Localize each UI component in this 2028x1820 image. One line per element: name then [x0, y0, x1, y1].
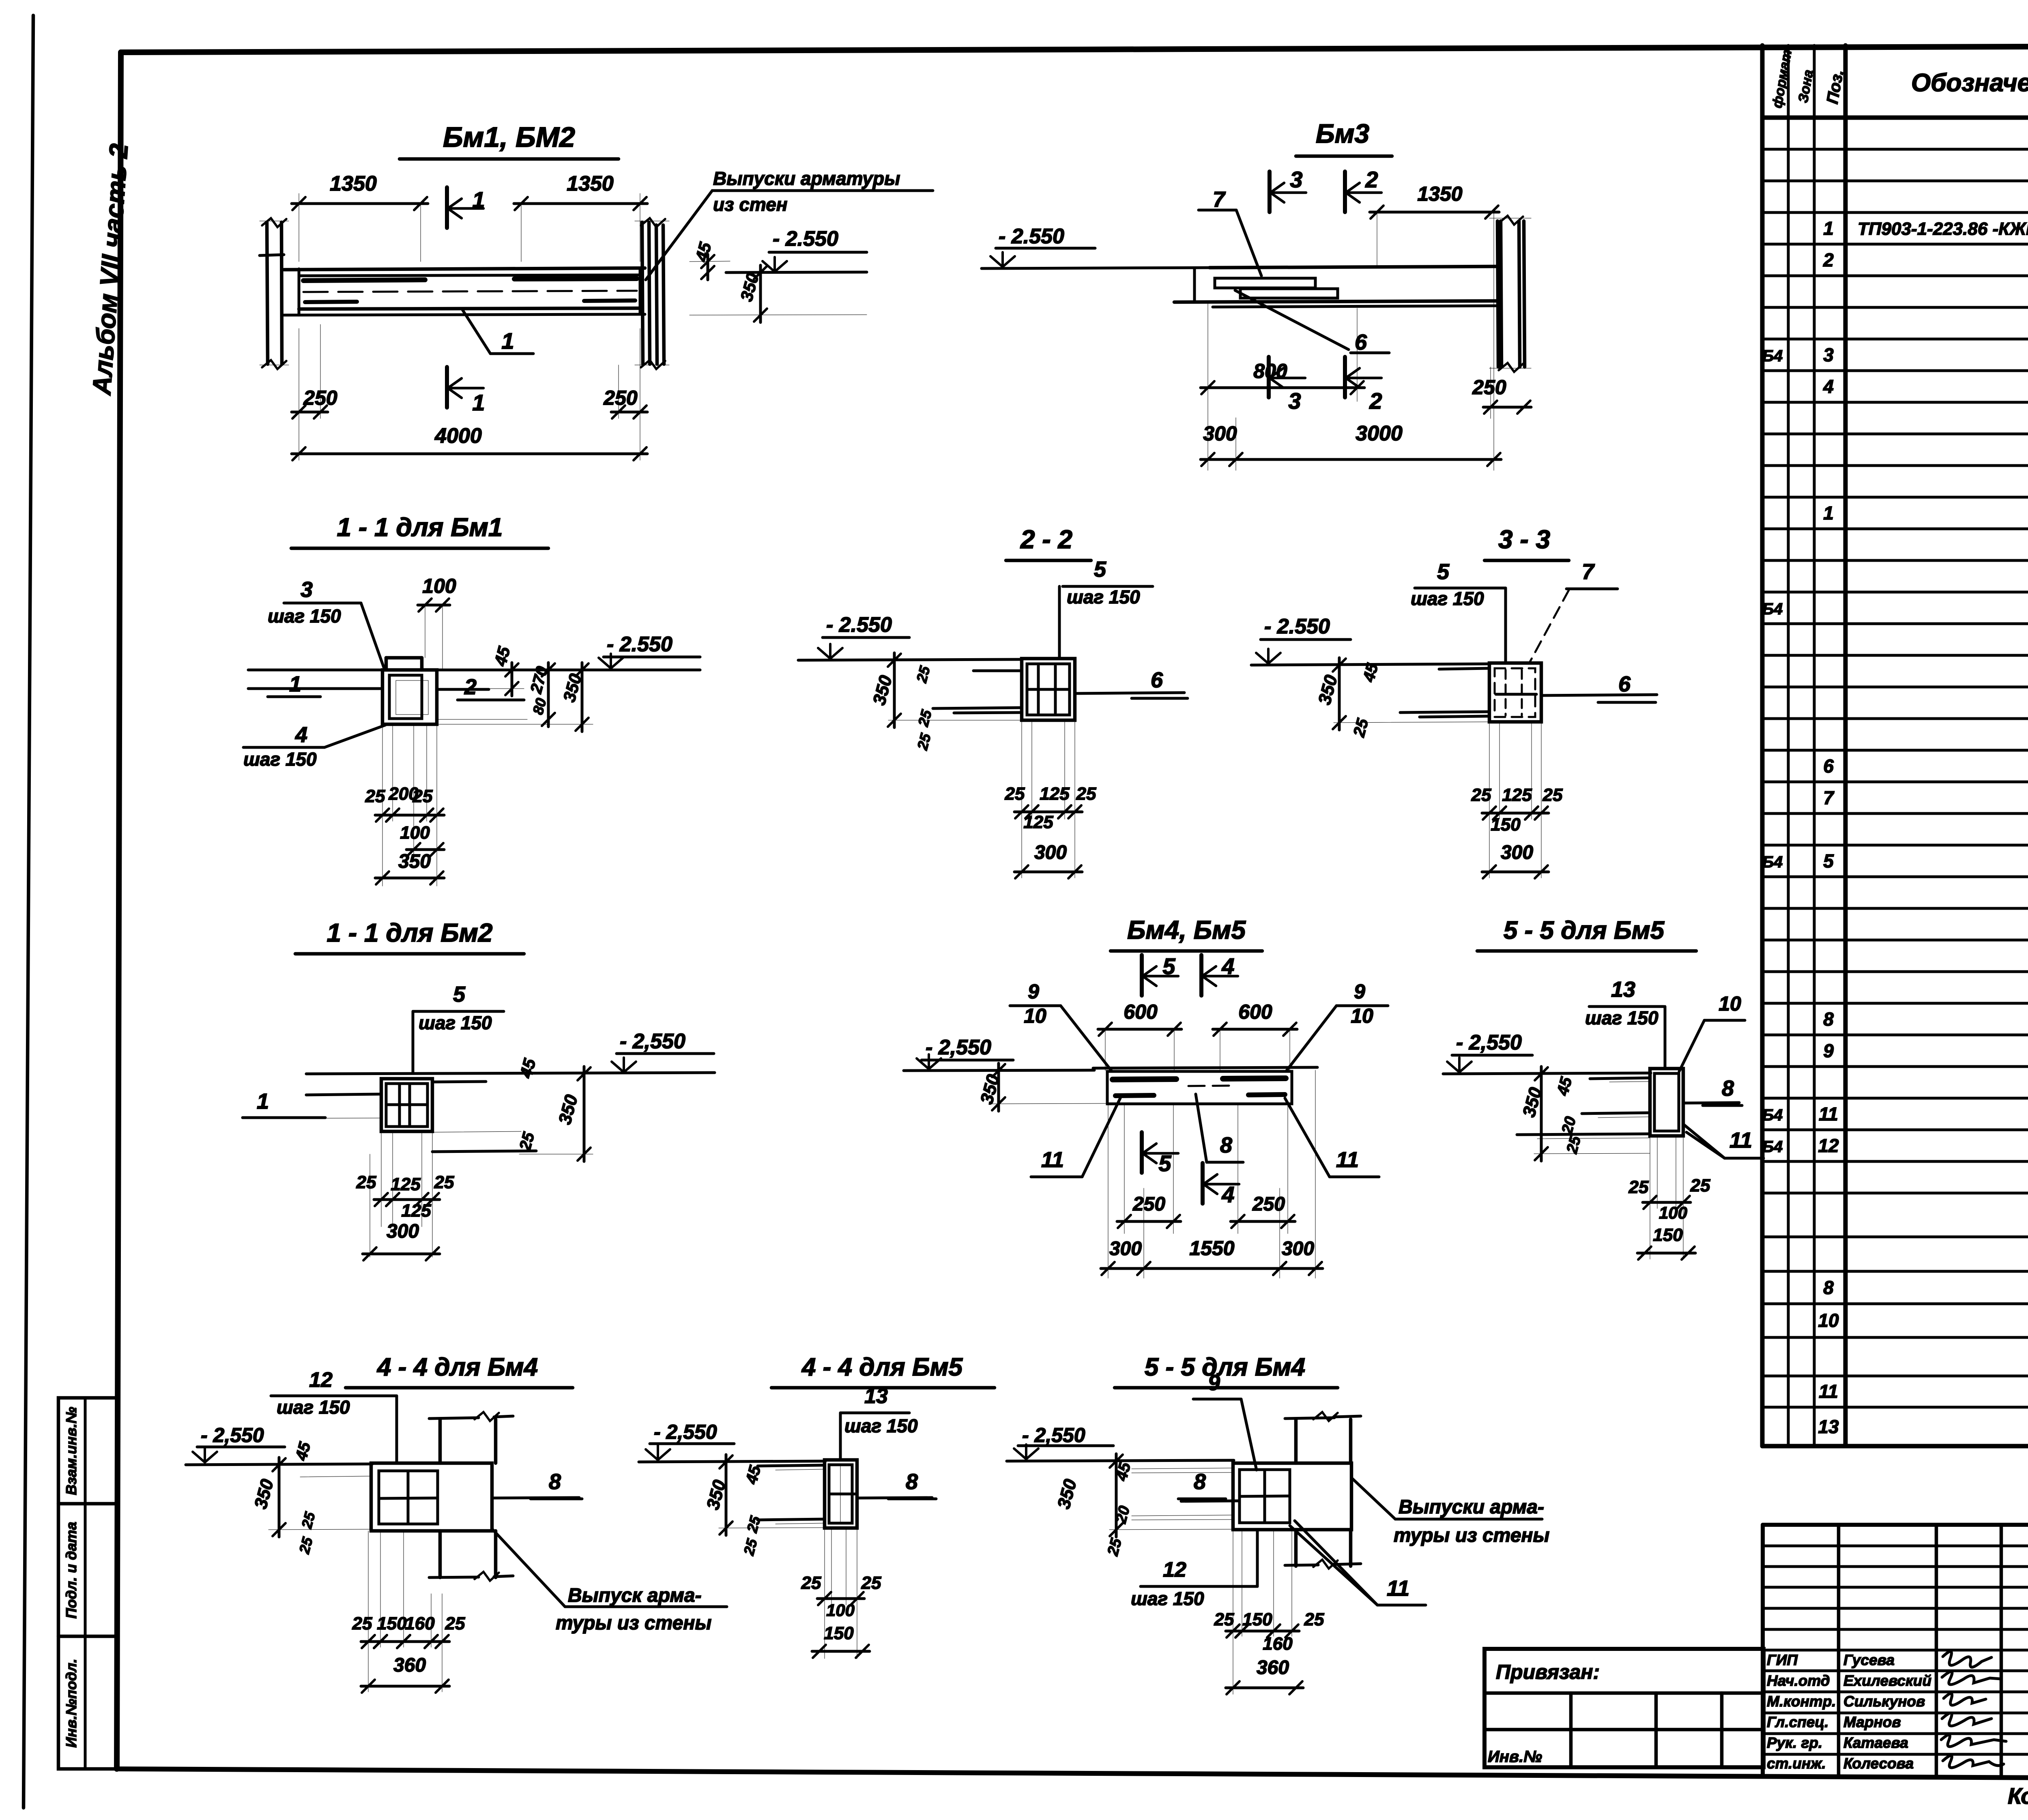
svg-text:4 - 4 для Бм4: 4 - 4 для Бм4 — [376, 1353, 538, 1381]
svg-text:- 2.550: - 2.550 — [999, 225, 1064, 248]
svg-text:25: 25 — [1350, 717, 1372, 739]
svg-text:Копир.: Копир. — [2008, 1783, 2028, 1809]
svg-text:25: 25 — [801, 1573, 821, 1593]
svg-text:5: 5 — [1823, 850, 1834, 871]
svg-text:25: 25 — [1304, 1610, 1324, 1629]
svg-text:125: 125 — [1023, 812, 1053, 832]
svg-text:7: 7 — [1823, 787, 1835, 808]
svg-text:1550: 1550 — [1189, 1237, 1234, 1260]
svg-text:150: 150 — [1491, 815, 1521, 835]
beam elevation БМ4, БМ5 — [904, 915, 1388, 1278]
svg-text:11: 11 — [1819, 1381, 1838, 1402]
svg-text:25: 25 — [296, 1535, 316, 1556]
svg-text:25: 25 — [412, 786, 433, 806]
svg-text:45: 45 — [692, 240, 715, 264]
svg-text:- 2.550: - 2.550 — [826, 613, 892, 637]
svg-text:13: 13 — [864, 1384, 888, 1408]
svg-text:Взам.инв.№: Взам.инв.№ — [63, 1407, 79, 1495]
svg-text:1: 1 — [289, 672, 301, 696]
svg-text:Выпуск арма-: Выпуск арма- — [568, 1585, 702, 1606]
svg-text:80: 80 — [529, 696, 550, 716]
svg-text:8: 8 — [906, 1470, 918, 1494]
svg-text:25: 25 — [1076, 784, 1096, 804]
svg-text:Выпуски арматуры: Выпуски арматуры — [713, 168, 900, 189]
svg-text:350: 350 — [869, 673, 896, 707]
beam elevation БМ1, БМ2 — [260, 121, 933, 460]
svg-text:Бм4, Бм5: Бм4, Бм5 — [1127, 915, 1246, 944]
svg-text:1: 1 — [472, 187, 485, 212]
svg-text:9: 9 — [1823, 1040, 1834, 1061]
svg-text:10: 10 — [1818, 1310, 1839, 1331]
section 5-5 для БМ4 — [1007, 1353, 1549, 1694]
svg-text:Колесова: Колесова — [1843, 1755, 1914, 1772]
svg-text:2: 2 — [1369, 388, 1382, 414]
svg-text:М.контр.: М.контр. — [1767, 1693, 1836, 1710]
svg-text:250: 250 — [303, 386, 337, 409]
svg-text:300: 300 — [387, 1221, 419, 1242]
svg-text:ГИП: ГИП — [1767, 1652, 1798, 1668]
svg-text:150: 150 — [1653, 1225, 1683, 1245]
svg-text:Бм3: Бм3 — [1316, 118, 1369, 148]
svg-text:25: 25 — [915, 708, 935, 728]
svg-text:25: 25 — [365, 786, 385, 806]
svg-text:25: 25 — [1690, 1176, 1710, 1195]
svg-text:45: 45 — [292, 1440, 314, 1463]
svg-text:300: 300 — [1109, 1238, 1142, 1260]
frame left — [117, 52, 121, 1769]
main title block (штамп) — [1763, 1523, 2028, 1527]
svg-text:9: 9 — [1354, 980, 1365, 1003]
svg-text:125: 125 — [391, 1174, 421, 1194]
svg-text:25: 25 — [1628, 1177, 1649, 1197]
svg-text:2: 2 — [464, 675, 477, 699]
svg-text:150: 150 — [1242, 1610, 1272, 1629]
svg-text:туры из стены: туры из стены — [1394, 1525, 1549, 1546]
svg-text:шаг 150: шаг 150 — [419, 1012, 492, 1033]
svg-text:3: 3 — [301, 577, 313, 602]
svg-text:25: 25 — [445, 1614, 465, 1633]
svg-text:5 - 5 для Бм5: 5 - 5 для Бм5 — [1504, 916, 1665, 944]
svg-text:Бм1, БМ2: Бм1, БМ2 — [443, 121, 575, 153]
svg-text:9: 9 — [1208, 1371, 1220, 1395]
svg-text:25: 25 — [1542, 785, 1563, 805]
svg-text:300: 300 — [1034, 842, 1067, 863]
svg-text:Б4: Б4 — [1762, 347, 1783, 365]
svg-text:шаг 150: шаг 150 — [243, 749, 317, 770]
svg-text:11: 11 — [1387, 1576, 1409, 1601]
svg-text:1: 1 — [1823, 502, 1834, 524]
svg-text:3: 3 — [1823, 344, 1834, 365]
svg-text:150: 150 — [377, 1614, 407, 1633]
svg-text:6: 6 — [1823, 755, 1834, 777]
svg-text:шаг 150: шаг 150 — [268, 605, 341, 627]
svg-text:4: 4 — [1823, 376, 1834, 397]
svg-text:12: 12 — [1818, 1135, 1839, 1156]
svg-text:45: 45 — [490, 644, 514, 668]
svg-text:300: 300 — [1501, 842, 1533, 863]
svg-text:8: 8 — [1194, 1470, 1206, 1494]
svg-text:25: 25 — [1563, 1134, 1584, 1156]
svg-text:4: 4 — [1221, 953, 1234, 979]
svg-text:250: 250 — [603, 386, 638, 409]
svg-text:5: 5 — [453, 982, 466, 1007]
svg-text:- 2,550: - 2,550 — [620, 1030, 685, 1053]
svg-text:- 2.550: - 2.550 — [607, 633, 672, 656]
svg-text:Б4: Б4 — [1762, 1138, 1783, 1156]
svg-text:45: 45 — [516, 1056, 539, 1080]
svg-text:300: 300 — [1282, 1238, 1314, 1260]
svg-text:6: 6 — [1151, 668, 1163, 692]
svg-text:Б4: Б4 — [1762, 600, 1783, 618]
svg-text:1350: 1350 — [1417, 182, 1462, 205]
svg-text:Обозначение: Обозначение — [1911, 69, 2028, 97]
svg-text:- 2,550: - 2,550 — [201, 1424, 264, 1447]
svg-text:11: 11 — [1819, 1103, 1838, 1125]
svg-text:125: 125 — [401, 1201, 431, 1221]
svg-text:Нач.отд: Нач.отд — [1767, 1672, 1830, 1689]
svg-text:250: 250 — [1252, 1193, 1285, 1215]
svg-text:Подл. и дата: Подл. и дата — [63, 1522, 79, 1619]
svg-text:Гл.спец.: Гл.спец. — [1767, 1714, 1829, 1730]
svg-text:11: 11 — [1041, 1148, 1064, 1172]
svg-text:25: 25 — [352, 1614, 372, 1633]
svg-text:150: 150 — [824, 1623, 854, 1643]
svg-text:100: 100 — [826, 1601, 855, 1620]
Привязан box — [1484, 1649, 1764, 1767]
svg-text:Марнов: Марнов — [1843, 1714, 1901, 1730]
svg-text:1: 1 — [1823, 218, 1834, 239]
svg-text:45: 45 — [1553, 1075, 1575, 1098]
svg-text:3 - 3: 3 - 3 — [1498, 525, 1550, 554]
svg-text:9: 9 — [1028, 980, 1039, 1003]
svg-text:350: 350 — [555, 1092, 582, 1127]
svg-text:1: 1 — [257, 1089, 269, 1114]
svg-text:100: 100 — [400, 823, 430, 843]
svg-text:туры из стены: туры из стены — [556, 1612, 711, 1634]
svg-text:8: 8 — [1823, 1277, 1834, 1298]
svg-text:Ехилевский: Ехилевский — [1843, 1672, 1931, 1689]
svg-text:25: 25 — [356, 1172, 376, 1192]
svg-text:25: 25 — [516, 1130, 538, 1153]
svg-text:Катаева: Катаева — [1843, 1734, 1908, 1751]
svg-text:11: 11 — [1336, 1148, 1359, 1172]
svg-text:350: 350 — [251, 1477, 277, 1511]
svg-text:160: 160 — [405, 1614, 435, 1633]
svg-text:- 2,550: - 2,550 — [1022, 1424, 1085, 1447]
svg-text:5: 5 — [1158, 1150, 1171, 1176]
svg-text:2: 2 — [1823, 249, 1834, 270]
svg-text:1: 1 — [472, 390, 485, 415]
svg-text:600: 600 — [1238, 1000, 1272, 1023]
svg-text:5: 5 — [1094, 557, 1106, 582]
svg-text:10: 10 — [1351, 1004, 1373, 1027]
svg-text:250: 250 — [1472, 376, 1506, 399]
svg-text:Б4: Б4 — [1762, 853, 1783, 871]
svg-text:2: 2 — [1365, 167, 1378, 192]
svg-text:25: 25 — [434, 1172, 454, 1192]
section 1-1 для БМ2 — [243, 918, 715, 1260]
svg-text:8: 8 — [1823, 1009, 1834, 1030]
svg-text:25: 25 — [1214, 1610, 1234, 1629]
svg-text:5: 5 — [1162, 953, 1175, 979]
section 3-3 — [1251, 525, 1657, 878]
svg-text:13: 13 — [1818, 1416, 1839, 1437]
svg-text:6: 6 — [1618, 672, 1631, 696]
svg-text:360: 360 — [393, 1655, 426, 1676]
svg-text:из стен: из стен — [713, 194, 788, 215]
svg-text:25: 25 — [740, 1537, 760, 1557]
svg-text:2 - 2: 2 - 2 — [1020, 525, 1072, 554]
svg-text:12: 12 — [1163, 1558, 1186, 1582]
svg-text:- 2,550: - 2,550 — [926, 1036, 991, 1059]
beam elevation БМ3 — [982, 118, 1531, 470]
frame bottom — [117, 1769, 2028, 1780]
svg-text:13: 13 — [1611, 977, 1635, 1002]
svg-text:10: 10 — [1719, 992, 1741, 1015]
svg-text:300: 300 — [1203, 422, 1237, 445]
svg-text:3: 3 — [1288, 388, 1301, 414]
svg-text:- 2,550: - 2,550 — [654, 1421, 717, 1443]
svg-text:Привязан:: Привязан: — [1496, 1661, 1600, 1683]
specification table grid — [1762, 116, 2028, 120]
svg-text:4: 4 — [295, 723, 307, 747]
svg-text:шаг 150: шаг 150 — [1411, 588, 1484, 609]
svg-text:- 2,550: - 2,550 — [1456, 1031, 1522, 1054]
svg-text:формат: формат — [1769, 49, 1795, 109]
svg-text:6: 6 — [1355, 330, 1367, 354]
section 5-5 для БМ5 — [1443, 916, 1764, 1260]
svg-text:25: 25 — [914, 731, 934, 752]
svg-text:25: 25 — [1104, 1536, 1125, 1558]
svg-text:1 - 1 для Бм2: 1 - 1 для Бм2 — [327, 918, 493, 947]
svg-text:600: 600 — [1124, 1000, 1158, 1023]
svg-text:25: 25 — [1471, 785, 1491, 805]
svg-text:360: 360 — [1257, 1657, 1289, 1678]
svg-text:3: 3 — [1290, 167, 1302, 192]
svg-text:Инв.№: Инв.№ — [1488, 1748, 1542, 1766]
svg-text:25: 25 — [861, 1573, 881, 1593]
svg-text:8: 8 — [1722, 1076, 1734, 1101]
svg-text:350: 350 — [1315, 673, 1341, 707]
svg-text:7: 7 — [1582, 560, 1595, 584]
svg-text:160: 160 — [1263, 1634, 1293, 1654]
svg-text:шаг 150: шаг 150 — [844, 1415, 918, 1436]
svg-text:Рук. гр.: Рук. гр. — [1767, 1734, 1822, 1751]
section 4-4 для БМ5 — [639, 1353, 995, 1659]
section 4-4 для БМ4 — [186, 1353, 727, 1693]
svg-text:1: 1 — [501, 328, 514, 354]
svg-text:шаг 150: шаг 150 — [277, 1397, 350, 1418]
svg-text:4000: 4000 — [434, 424, 482, 448]
svg-text:1 - 1 для Бм1: 1 - 1 для Бм1 — [337, 513, 503, 542]
svg-text:Альбом VII часть 2: Альбом VII часть 2 — [87, 143, 133, 397]
svg-text:Б4: Б4 — [1762, 1106, 1783, 1124]
svg-text:шаг 150: шаг 150 — [1131, 1588, 1204, 1609]
svg-text:3000: 3000 — [1356, 422, 1403, 445]
svg-text:100: 100 — [422, 575, 456, 597]
svg-text:1350: 1350 — [330, 172, 377, 195]
svg-text:7: 7 — [1213, 187, 1226, 212]
svg-text:125: 125 — [1040, 784, 1070, 804]
svg-text:шаг 150: шаг 150 — [1585, 1007, 1658, 1028]
svg-text:ст.инж.: ст.инж. — [1767, 1755, 1826, 1772]
svg-text:Выпуски арма-: Выпуски арма- — [1399, 1496, 1544, 1518]
svg-text:- 2.550: - 2.550 — [1264, 615, 1330, 638]
svg-text:25: 25 — [743, 1514, 764, 1535]
svg-text:Инв.№подл.: Инв.№подл. — [63, 1659, 79, 1747]
section 1-1 для БМ1 — [243, 513, 700, 886]
svg-text:Гусева: Гусева — [1843, 1652, 1895, 1668]
svg-text:350: 350 — [1054, 1477, 1081, 1511]
svg-text:25: 25 — [913, 664, 933, 685]
svg-text:Силькунов: Силькунов — [1843, 1693, 1925, 1710]
svg-text:350: 350 — [398, 851, 431, 872]
svg-text:25: 25 — [298, 1510, 318, 1530]
svg-text:ТП903-1-223.86 -КЖИ-023.020-0: ТП903-1-223.86 -КЖИ-023.020-03 — [1858, 219, 2028, 239]
svg-text:12: 12 — [309, 1368, 333, 1392]
svg-text:800: 800 — [1253, 360, 1287, 382]
svg-text:8: 8 — [549, 1470, 561, 1494]
svg-text:- 2.550: - 2.550 — [773, 227, 838, 251]
section 2-2 — [798, 525, 1188, 878]
outer trim line left — [24, 15, 33, 1808]
svg-text:100: 100 — [1659, 1203, 1687, 1222]
frame top — [121, 45, 2028, 52]
svg-text:8: 8 — [1220, 1133, 1232, 1157]
svg-text:шаг 150: шаг 150 — [1067, 586, 1140, 607]
svg-text:11: 11 — [1729, 1128, 1752, 1153]
svg-text:250: 250 — [1132, 1193, 1165, 1215]
svg-text:5 - 5 для Бм4: 5 - 5 для Бм4 — [1145, 1353, 1305, 1381]
left margin boxes — [58, 1398, 117, 1769]
svg-text:5: 5 — [1437, 560, 1450, 584]
svg-text:25: 25 — [1005, 784, 1025, 804]
svg-text:10: 10 — [1024, 1004, 1046, 1027]
svg-text:1350: 1350 — [567, 172, 614, 195]
svg-text:4: 4 — [1221, 1182, 1234, 1207]
svg-text:125: 125 — [1502, 785, 1532, 805]
svg-text:4 - 4 для Бм5: 4 - 4 для Бм5 — [801, 1353, 963, 1381]
